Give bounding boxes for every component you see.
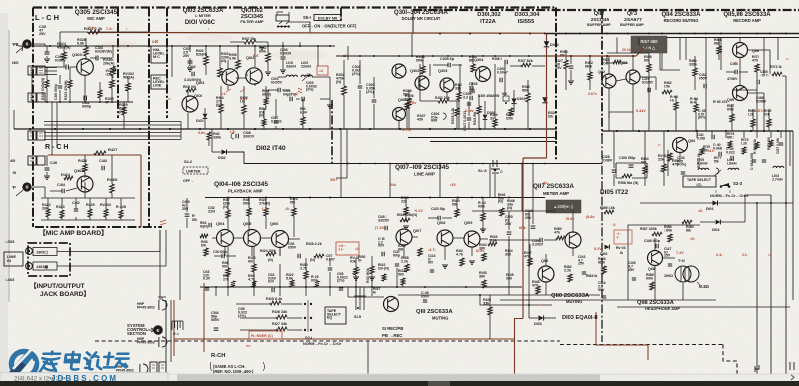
- transistor Q113: [626, 70, 640, 84]
- spare gnds: [327, 105, 333, 108]
- wire record rail y37.5: [667, 37, 799, 39]
- board border left x33: [32, 8, 34, 228]
- wire top rail right y33.5: [547, 33, 799, 35]
- junction dots y163.5: [347, 163, 349, 165]
- dots rail y56: [343, 55, 345, 57]
- red stamp near L102: [317, 66, 328, 75]
- extra horizontal segs right: [607, 52, 649, 54]
- wire x757 upper: [756, 203, 758, 300]
- wire playback bottom bus y287: [200, 286, 522, 288]
- diode D104 on y203: [713, 201, 718, 206]
- filter wires: [189, 46, 191, 52]
- transistor Q111: [384, 297, 399, 312]
- transistor Q109: [464, 231, 480, 247]
- extra playback verticals: [215, 287, 217, 296]
- switch S5-1 dolby nr: [276, 15, 289, 21]
- tooltip box: [0, 372, 168, 383]
- watermark logo: [7, 350, 37, 378]
- mic amp wires: [59, 32, 61, 46]
- transistor Q116: [733, 43, 748, 58]
- wire bundle mid: [44, 121, 181, 123]
- S1-5 contacts: [356, 296, 364, 310]
- brown branch y56: [547, 48, 645, 56]
- extra verticals right section: [616, 38, 618, 54]
- drops from line amp rail: [389, 164, 391, 198]
- wires under Q106: [279, 247, 281, 256]
- scan noise overlay: [0, 0, 1, 1]
- dark stamp R157 680: [631, 36, 667, 53]
- r-ch wires: [41, 197, 135, 199]
- headphone wires: [654, 238, 656, 250]
- switch contacts S2-1: [304, 303, 306, 305]
- board border x341 stub: [340, 8, 342, 22]
- dots brown y56: [570, 55, 572, 57]
- line amp wires: [412, 236, 418, 238]
- junction dots rail y33.5: [439, 33, 441, 35]
- dolby drop verticals: [340, 129, 342, 198]
- dark stamp A330: [546, 200, 581, 213]
- wire line amp rail y163.5: [336, 163, 602, 165]
- wire playback rail y197.5: [205, 197, 545, 199]
- headphone box outline: [628, 225, 700, 300]
- diode D104: [716, 220, 721, 225]
- transistor Q107: [396, 229, 412, 245]
- TAPE SELECT C box: [683, 176, 716, 187]
- red stamp bottom: [249, 331, 282, 339]
- jack J403: [26, 263, 33, 270]
- dots y287: [215, 286, 217, 288]
- transistor Q301a: [392, 64, 406, 78]
- muting row wires: [348, 296, 384, 298]
- wires meter column: [508, 240, 510, 250]
- LINE IN box: [4, 252, 23, 266]
- wire bundle top: [45, 67, 57, 69]
- bottom dashed border: [95, 340, 560, 342]
- board border x332: [331, 100, 333, 163]
- transistor Q118: [648, 251, 663, 266]
- box H&L LEVEL MIC: [151, 46, 167, 63]
- left column extra: [22, 43, 45, 45]
- transistor Q114: [673, 138, 688, 153]
- transistor Q117: [565, 232, 581, 248]
- board border x602: [601, 10, 603, 135]
- extra verticals dolby: [419, 64, 421, 90]
- red stamp muting: [614, 230, 632, 244]
- step wire to line amp rail: [227, 152, 602, 164]
- page left margin: [0, 13, 8, 374]
- vertical near note: [367, 341, 369, 374]
- brown wire x523 down: [522, 158, 524, 319]
- wire y203 right: [640, 202, 793, 204]
- meter box top line: [472, 210, 556, 212]
- switch S2-3: [720, 183, 729, 186]
- brown wire x204: [203, 283, 205, 352]
- dolby low wires: [419, 90, 421, 101]
- mic amp bottom rail: [32, 101, 133, 103]
- brown wire x546 vertical: [546, 33, 548, 158]
- brown wire x174: [173, 300, 175, 356]
- connector row2: [28, 93, 36, 102]
- board border top (mic amp): [33, 6, 556, 8]
- diode D102: [222, 150, 227, 155]
- diode D106: [605, 245, 610, 250]
- TAPE SELECT EQ box: [325, 307, 346, 324]
- right vertical wires: [756, 300, 758, 374]
- watermark CJK text: [40, 352, 130, 373]
- board border bottom y227: [35, 226, 162, 228]
- scrollbar thumb: [177, 374, 600, 381]
- bottom-left verticals: [165, 300, 167, 374]
- connector PB top: [22, 39, 31, 48]
- wires from jacks: [57, 251, 160, 253]
- connector PB lower: [22, 182, 31, 191]
- bottom dark bar: [0, 381, 799, 386]
- resistor R159: [668, 153, 672, 161]
- extra verticals top mid: [347, 46, 349, 60]
- wire bus y138: [408, 137, 557, 139]
- diode D304 top: [544, 41, 550, 47]
- wire right main bus y131: [602, 130, 793, 132]
- record wires: [616, 79, 626, 81]
- scrollbar track: [0, 374, 799, 381]
- node E: [153, 325, 163, 335]
- board border divider x167: [166, 8, 168, 119]
- faint red smudges: [186, 34, 234, 42]
- brown wire bottom horizontal: [174, 338, 515, 340]
- board border top (record section): [413, 9, 799, 11]
- extra wires under playback transistors: [224, 247, 226, 257]
- transistor Q112: [602, 74, 616, 88]
- brown wire across y158: [523, 157, 547, 159]
- brown signal line y33: [87, 32, 547, 35]
- junction dots bus: [29, 128, 31, 130]
- wire dolby top: [336, 55, 557, 57]
- wire L-CH top rail y46: [20, 45, 335, 47]
- box REC LEVEL LINE: [151, 75, 167, 89]
- board border x118: [117, 8, 119, 119]
- red stamp playback: [336, 242, 359, 255]
- jack J305: [26, 248, 33, 255]
- board border divider x149: [148, 8, 150, 228]
- switch S5-1 comb: [172, 321, 183, 330]
- transistor Q115: [733, 86, 748, 101]
- right mid wires: [679, 153, 681, 160]
- jack board border: [28, 243, 70, 276]
- diode D304: [542, 97, 548, 103]
- cross wires L-R: [51, 102, 53, 155]
- brown wire right bottom: [596, 312, 648, 360]
- junction dots rail y46: [49, 45, 51, 47]
- transistor Q108: [437, 230, 453, 246]
- playback inter wires: [233, 237, 244, 239]
- scrollbar right arrow: [791, 375, 794, 380]
- wire main bus y129: [14, 128, 557, 130]
- cap small x764: [762, 160, 766, 162]
- S1-8 drop wire: [494, 174, 496, 198]
- bottom right tiny marks: [755, 365, 759, 372]
- meter wires: [489, 239, 520, 241]
- diode D103: [538, 315, 543, 320]
- board border right x556: [555, 8, 557, 161]
